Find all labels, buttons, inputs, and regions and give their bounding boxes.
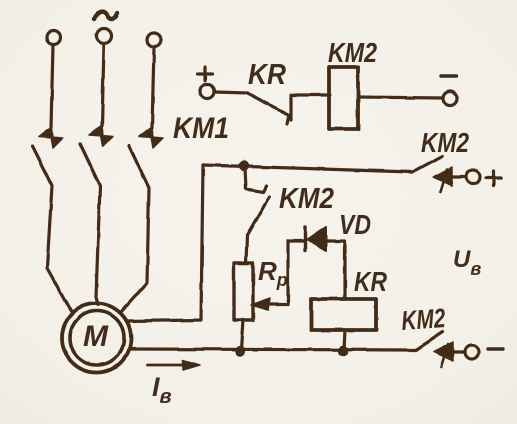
wire diode to KR coil (326, 241, 345, 299)
contact KR fixed stub (291, 95, 330, 120)
motor M inner circle (70, 311, 124, 365)
contact KM1 pole C arrowhead (139, 127, 163, 148)
current direction arrow Iv (148, 364, 185, 367)
terminal +Ub circle (466, 170, 480, 184)
wire coil KM2 to minus terminal (358, 97, 443, 98)
wire from + to KR contact (215, 92, 247, 93)
wire phase C vertical (152, 48, 154, 128)
contact KM2 to +Ub arrowhead (433, 167, 452, 186)
diode VD triangle (307, 227, 326, 251)
control circuit: + terminal circle (201, 85, 215, 99)
node junction on plus line (239, 161, 249, 171)
contact KM2 aux stub from node (245, 167, 266, 192)
terminal minus circle (control) (443, 92, 457, 106)
terminal L1 (47, 31, 61, 45)
control circuit: plus sign (198, 67, 212, 81)
bus wire from motor to KM2 minus contact (129, 349, 416, 350)
contact KM1 pole C blade and wire to motor (121, 146, 149, 312)
node junction Rp-bus (235, 346, 245, 356)
wire to - terminal (453, 350, 465, 353)
resistor Rp body (234, 263, 253, 320)
terminal L2 (97, 29, 112, 44)
minus sign (control) (441, 74, 457, 77)
contact KM1 pole A arrowhead (39, 127, 63, 148)
contact KM2 aux blade (246, 197, 269, 263)
contact KM2 to -Ub blade (416, 332, 443, 350)
resistor Rp wiper arrow line (266, 302, 288, 305)
coil KR rectangle (311, 299, 376, 330)
wire to + terminal (452, 175, 466, 178)
terminal -Ub circle (465, 345, 479, 359)
contact KM1 pole B arrowhead (89, 125, 113, 146)
motor M outer circle (62, 304, 131, 373)
wire Rp bottom to bus (241, 320, 243, 350)
diode VD cathode bar (303, 227, 306, 251)
resistor Rp wiper arrowhead (251, 298, 270, 310)
coil KM2 rectangle (329, 67, 358, 129)
terminal L3 (147, 33, 161, 47)
wire wiper riser to diode branch (288, 241, 303, 304)
wire armature plus line (203, 165, 412, 172)
contact KM1 pole A blade and wire to motor (32, 146, 72, 313)
wire phase A vertical (51, 45, 53, 128)
minus sign at -Ub (488, 347, 503, 350)
AC supply tilde symbol (94, 12, 117, 19)
contact KM1 pole B blade and wire to motor (80, 144, 100, 305)
contact KR blade (247, 93, 289, 124)
contact KM2 to -Ub arrowhead (434, 342, 453, 361)
wire phase B vertical (102, 44, 104, 126)
plus sign at +Ub (486, 171, 501, 186)
wire motor to riser (126, 165, 203, 321)
wire KR coil to bus (344, 330, 345, 350)
contact KM2 to +Ub blade (412, 156, 442, 172)
node junction KR-bus (338, 346, 348, 356)
